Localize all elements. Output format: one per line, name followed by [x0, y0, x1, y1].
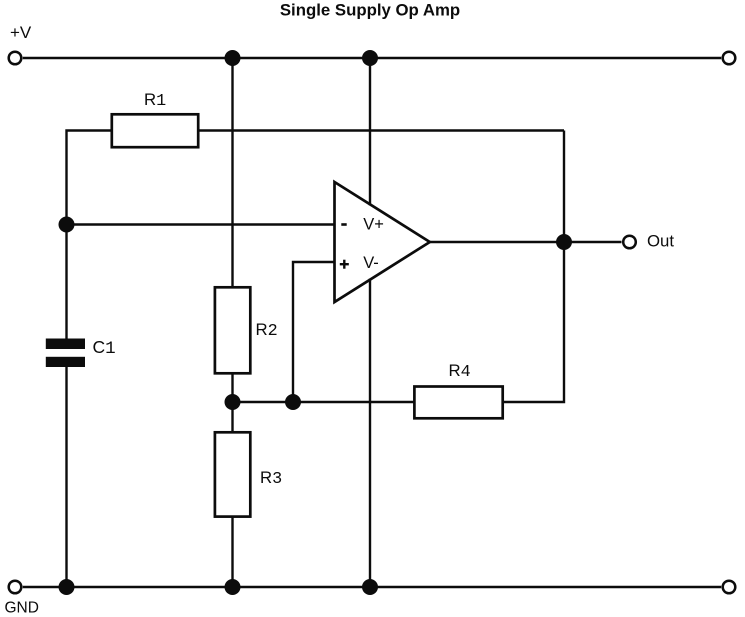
wire R1 left lead [67, 131, 114, 339]
wire inverting input [67, 223, 335, 225]
wire V+ branch [369, 58, 371, 206]
junction bottom rail / V- branch [362, 579, 378, 595]
terminal Out [623, 236, 636, 249]
terminal +V [9, 52, 22, 65]
wire top rail [23, 57, 721, 59]
svg-text:R4: R4 [449, 361, 471, 382]
svg-text:+V: +V [10, 23, 32, 42]
svg-text:V+: V+ [363, 216, 384, 234]
junction bottom rail / left branch [59, 579, 75, 595]
wire left branch lower [65, 367, 67, 587]
svg-text:GND: GND [5, 599, 39, 616]
op-amp U1 [335, 182, 430, 302]
wire R2 bottom lead [231, 373, 233, 402]
svg-text:Single Supply Op Amp: Single Supply Op Amp [280, 0, 460, 19]
terminal GND [9, 581, 22, 594]
junction top rail / V+ branch [362, 50, 378, 66]
junction output node [556, 234, 572, 250]
junction bottom rail / R3 branch [225, 579, 241, 595]
terminal bottom right [723, 581, 736, 594]
wire R3 bottom lead [231, 517, 233, 587]
junction non-inverting node [285, 394, 301, 410]
svg-text:R1: R1 [144, 90, 166, 111]
wire R4 right lead [503, 131, 564, 403]
op-amp pin label plus [340, 260, 349, 269]
wire R2 top lead [231, 58, 233, 287]
wire R3 top lead [231, 402, 233, 432]
junction R2/R3 node [225, 394, 241, 410]
wire R1 right lead [198, 129, 564, 131]
svg-text:R2: R2 [256, 320, 278, 341]
junction inverting node [59, 217, 75, 233]
resistor R2 [215, 287, 250, 373]
resistor R3 [215, 432, 250, 516]
svg-text:R3: R3 [260, 468, 282, 489]
svg-text:C1: C1 [93, 337, 116, 359]
wire feedback bottom run [233, 401, 415, 403]
svg-text:Out: Out [647, 232, 674, 251]
wire V- branch [369, 279, 371, 588]
junction top rail / R2 branch [225, 50, 241, 66]
resistor R4 [414, 387, 502, 419]
wire non-inverting branch [293, 262, 335, 402]
svg-text:V-: V- [363, 254, 379, 272]
wire bottom rail [23, 586, 721, 588]
terminal top right [723, 52, 736, 65]
resistor R1 [112, 114, 198, 147]
wire output [430, 241, 622, 243]
op-amp pin label minus [341, 223, 346, 226]
capacitor C1 [46, 339, 85, 368]
